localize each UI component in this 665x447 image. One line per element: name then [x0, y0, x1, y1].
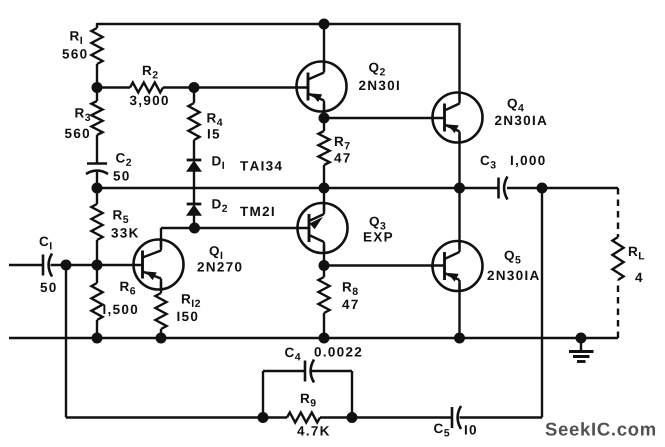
R12 value label 150: [177, 312, 197, 322]
label Q4: [508, 99, 524, 112]
wire Q5 top lead: [458, 188, 460, 249]
R7 value label 47: [334, 153, 350, 162]
label RL: [629, 247, 644, 260]
wire Q2 emitter to Q4 base: [324, 117, 445, 119]
transistor Q2: [297, 61, 347, 113]
Q1 type label 2N270: [197, 262, 241, 272]
wire C4 branch top right: [312, 370, 353, 372]
label R9: [301, 394, 316, 407]
wire R2 left lead: [97, 86, 130, 88]
wire output riser: [541, 188, 543, 418]
resistor R12: [155, 293, 166, 329]
wire Q1 emitter to R12: [160, 282, 162, 294]
node Q2 emitter junction: [319, 113, 329, 123]
resistor R3: [91, 101, 102, 135]
wire D1 to D2: [193, 171, 195, 204]
watermark SeekIC.com: [546, 422, 656, 436]
Q2 type label 2N301: [359, 81, 399, 91]
Q3 type label EXP: [364, 232, 392, 241]
node mid rail at Q2 emitter column: [319, 183, 329, 193]
wire R7 to mid rail: [323, 165, 325, 188]
C5 value label 10: [465, 425, 476, 435]
diode D1: [187, 160, 202, 171]
label C4: [285, 348, 300, 361]
label R7: [335, 137, 350, 150]
R8 value label 47: [342, 300, 358, 309]
node mid rail at Q4 emitter column: [455, 183, 465, 193]
C4 value label 0.0022: [315, 347, 362, 357]
resistor R8: [318, 277, 329, 313]
wire D2 to Q1 collector row: [193, 215, 195, 228]
R4 value label 15: [208, 129, 219, 138]
resistor R5: [91, 204, 102, 240]
label Q5: [505, 251, 521, 264]
wire R5 from mid rail: [96, 188, 98, 204]
wire Q2 collector lead: [323, 24, 325, 70]
ground: [569, 338, 594, 362]
node mid rail / C5 riser junction: [537, 183, 547, 193]
label R1: [70, 31, 82, 44]
wire top supply rail: [97, 23, 460, 25]
wire dashed RL bottom segment: [617, 280, 619, 338]
wire Q4 emitter lead: [458, 135, 460, 189]
node R8/ground rail junction: [319, 333, 329, 343]
label Q3: [370, 217, 386, 230]
wire mid rail right of C3: [507, 187, 618, 189]
diode D2: [187, 204, 202, 215]
resistor R6: [91, 283, 102, 320]
label D1: [212, 156, 224, 169]
node C2/mid-rail junction: [92, 183, 102, 193]
wire feedback rail left: [66, 416, 263, 418]
wire feedback drop: [65, 265, 67, 418]
node R12/ground rail junction: [156, 333, 166, 343]
label R4: [207, 113, 222, 126]
wire R9 right lead: [320, 416, 352, 418]
wire C4 branch right riser: [351, 371, 353, 418]
R2 value label 3,900: [130, 96, 168, 108]
node R2/R4 junction: [189, 83, 199, 93]
wire R6 to ground rail: [96, 320, 98, 338]
wire R9 left lead: [263, 416, 287, 418]
label C3: [481, 156, 496, 169]
C3 value label 1,000: [511, 156, 545, 168]
transistor Q4: [433, 92, 483, 144]
node Q5/ground rail junction: [455, 333, 465, 343]
node R1/R2/R3 junction: [92, 83, 102, 93]
wire top rail right corner down to Q4: [458, 23, 460, 101]
node R9/C4 left junction: [258, 413, 268, 423]
wire left column top segment: [96, 23, 98, 28]
node ground rail at left column: [92, 333, 102, 343]
capacitor C5: [452, 406, 461, 429]
wire mid rail: [97, 187, 499, 189]
wire C2 to mid rail: [96, 172, 98, 188]
wire dashed RL top segment: [617, 188, 619, 237]
label R12: [182, 294, 200, 307]
R1 value label 560: [62, 49, 86, 59]
C2 value label 50: [113, 171, 128, 181]
Q5 type label 2N301A: [487, 271, 538, 281]
wire R12 to ground rail: [160, 329, 162, 338]
wire ground rail to RL corner: [581, 337, 618, 339]
wire C1 to Q1 base: [51, 264, 143, 266]
wire Q3 emitter lead: [323, 188, 325, 211]
wire Q3 collector lead: [323, 245, 325, 266]
wire R5 to input row: [96, 240, 98, 265]
wire R8 to ground rail: [323, 313, 325, 338]
resistor RL: [612, 237, 623, 280]
transistor Q5: [433, 240, 483, 292]
R6 value label 1,500: [103, 305, 137, 317]
resistor R4: [188, 103, 199, 140]
wire Q1 collector riser: [160, 228, 162, 248]
wire C4 branch left riser: [262, 371, 264, 418]
wire input lead: [9, 264, 43, 266]
R5 value label 33K: [111, 228, 138, 238]
resistor R9: [287, 413, 320, 423]
wire R2 to Q2 base: [163, 86, 308, 88]
label D2: [212, 199, 227, 212]
label R3: [75, 108, 90, 121]
wire R7 top lead: [323, 118, 325, 131]
node D2/Q1 collector junction: [190, 223, 200, 233]
D1 value label TA134: [240, 161, 282, 171]
label R2: [143, 66, 158, 79]
label C5: [434, 424, 449, 437]
node R9/C4 right junction: [347, 413, 357, 423]
wire Q3 collector to Q5 base: [324, 264, 445, 266]
wire Q1 collector row: [161, 227, 309, 229]
node top rail at Q2 collector: [319, 19, 329, 29]
node Q3 collector junction: [319, 261, 329, 271]
label R8: [343, 282, 358, 295]
D2 value label TM21: [240, 207, 274, 216]
label Q2: [369, 63, 385, 76]
wire R4 to D1: [193, 140, 195, 160]
wire R8 top lead: [323, 266, 325, 278]
transistor Q3: [298, 202, 348, 254]
wire C5 to output riser: [460, 416, 543, 418]
capacitor C2: [86, 164, 108, 175]
wire Q5 emitter lead: [458, 283, 460, 338]
RL value label 4: [635, 273, 642, 282]
capacitor C4: [305, 360, 314, 383]
R9 value label 4.7K: [297, 426, 329, 435]
node C1/feedback junction: [61, 260, 71, 270]
R3 value label 560: [65, 129, 89, 139]
resistor R7: [318, 131, 329, 165]
capacitor C3: [499, 177, 508, 200]
wire feedback rail to C5: [352, 416, 452, 418]
node ground rail at ground symbol: [576, 333, 586, 343]
wire C4 branch top left: [263, 370, 305, 372]
C1 value label 50: [40, 283, 55, 293]
wire R3 to C2: [96, 135, 98, 164]
capacitor C1: [43, 254, 52, 277]
transistor Q1: [134, 239, 184, 291]
wire R6 from input row: [96, 265, 98, 283]
resistor R2: [130, 83, 163, 93]
label R5: [113, 210, 128, 223]
node input row at left column: [92, 260, 102, 270]
resistor R1: [91, 28, 102, 64]
wire R1 to R3: [96, 64, 98, 101]
wire Q2 emitter lead: [323, 104, 325, 119]
Q4 type label 2N301A: [495, 116, 546, 126]
label C2: [116, 153, 131, 166]
wire ground rail: [9, 337, 581, 339]
label Q1: [210, 246, 223, 259]
label C1: [40, 237, 52, 250]
label R6: [120, 282, 135, 295]
wire R4 top lead: [193, 88, 195, 104]
